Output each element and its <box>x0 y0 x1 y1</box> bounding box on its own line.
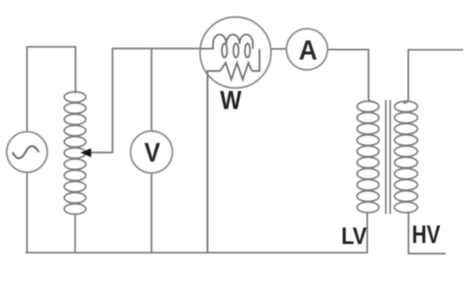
svg-text:HV: HV <box>412 222 441 249</box>
svg-text:LV: LV <box>341 224 367 250</box>
svg-text:W: W <box>220 85 242 115</box>
svg-text:A: A <box>299 35 318 66</box>
svg-text:V: V <box>144 138 160 168</box>
